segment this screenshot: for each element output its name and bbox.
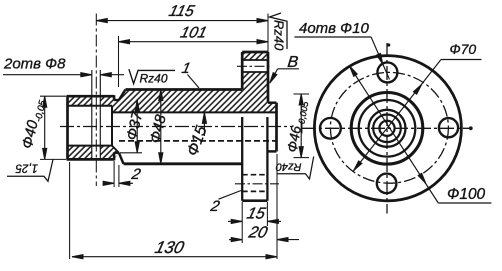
hatch bushing bottom wall	[68, 146, 119, 160]
dim f37	[136, 100, 138, 153]
svg-text:20: 20	[246, 224, 269, 242]
svg-text:Ф70: Ф70	[450, 41, 477, 57]
surface mark Rz40 flange face top (rotated)	[270, 13, 288, 49]
surface mark V1,25 (rotated)	[7, 160, 53, 182]
svg-text:2: 2	[208, 198, 221, 215]
dim f46	[294, 93, 310, 95]
dim f70 diagonal	[353, 60, 441, 172]
RIGHT VIEW	[302, 127, 471, 129]
hole f8 axis	[95, 14, 97, 187]
cone transition	[112, 146, 119, 153]
flange top hole section edges	[242, 59, 268, 61]
axis main centerline	[60, 126, 292, 128]
svg-text:Rz40: Rz40	[275, 161, 302, 173]
dim f48	[160, 90, 162, 164]
dim 130	[69, 162, 71, 259]
bore f15	[112, 111, 277, 113]
flange outline	[241, 52, 244, 90]
hole f8 edge lines	[91, 70, 93, 159]
svg-text:Ф46-0,005: Ф46-0,005	[284, 98, 311, 153]
svg-text:101: 101	[179, 25, 209, 42]
svg-text:15: 15	[245, 205, 268, 223]
surface mark VRz40 body	[129, 69, 175, 83]
leader label B	[278, 68, 299, 70]
dim 115	[96, 20, 268, 22]
svg-text:130: 130	[153, 237, 187, 257]
neck groove	[114, 99, 119, 101]
dim 101	[119, 41, 269, 43]
svg-text:Rz40: Rz40	[140, 72, 168, 86]
spigot	[268, 101, 277, 104]
hatch section top band (body+flange+spigot)	[112, 52, 277, 112]
leader 2otv f8	[3, 74, 92, 76]
svg-text:Ф100: Ф100	[447, 186, 486, 203]
flange bottom hole hidden	[242, 174, 267, 176]
bushing outline	[66, 96, 69, 159]
surface mark Rz40 spigot bottom (upside down)	[277, 157, 314, 180]
leader label 2 bottom	[219, 191, 242, 200]
svg-text:2: 2	[129, 166, 142, 183]
svg-text:2отв Ф8: 2отв Ф8	[3, 56, 66, 73]
dim 15	[241, 202, 243, 243]
dim 20	[276, 154, 278, 259]
dim f15	[203, 112, 205, 136]
body outline	[126, 88, 243, 91]
svg-text:Ф37: Ф37	[123, 110, 146, 142]
hatch bushing top wall	[68, 96, 115, 106]
dim f40	[40, 95, 66, 97]
svg-text:115: 115	[167, 3, 196, 20]
svg-text:4отв Ф10: 4отв Ф10	[299, 20, 369, 37]
svg-text:Ф15: Ф15	[184, 124, 210, 159]
leader 4otv f10	[294, 36, 371, 38]
svg-text:1,25: 1,25	[15, 162, 38, 174]
leader label 1	[188, 75, 200, 89]
chamfer body left	[119, 90, 126, 101]
bushing bore	[68, 105, 113, 107]
svg-text:1: 1	[180, 60, 192, 77]
dim f100 diagonal	[349, 65, 438, 203]
svg-text:В: В	[287, 53, 300, 71]
svg-text:Rz40: Rz40	[272, 20, 287, 51]
dim 2 neck	[113, 161, 115, 187]
